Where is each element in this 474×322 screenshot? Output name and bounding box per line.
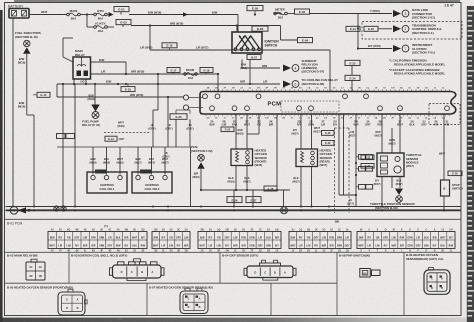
connector box pair E-32 [359, 167, 366, 172]
PCM U1 [200, 92, 456, 115]
connector B-08 drawing [360, 269, 371, 278]
arrow transmission control module [393, 25, 401, 32]
wire drop x190 [189, 119, 191, 144]
wire HO2S front grounds [235, 166, 237, 191]
wire to fuse METER [274, 13, 281, 15]
node fuel injector [24, 40, 30, 46]
wire california pair A [338, 114, 340, 195]
connector box pair E-36 [359, 185, 366, 190]
wire from arrow down [200, 169, 202, 190]
table verticals [68, 252, 70, 283]
wire ground collector y190 [201, 189, 290, 191]
wire TPS bottoms [381, 177, 383, 207]
wire branch down to fuse ROOM [86, 15, 88, 28]
connector box E-26 [227, 197, 242, 203]
wire drop x234 with box [233, 190, 235, 207]
wire fuse to connector [287, 13, 294, 15]
connector B-09 drawing [424, 268, 450, 295]
arrow cooling fan relay [283, 81, 291, 88]
wire battery ground run [12, 18, 14, 207]
wire relay feed from fuse side [62, 38, 64, 57]
connector box E-12 [105, 136, 117, 141]
dashed option box TCM [362, 22, 462, 40]
connector box B-06 above switch [252, 26, 268, 31]
wire coil collector [57, 146, 190, 148]
wire ground drop x75 [74, 84, 76, 207]
arrow fuel pump relay [91, 105, 100, 112]
connector B-03 drawing [110, 259, 165, 281]
dashed interconnect [104, 132, 150, 134]
connector B-02 drawing [31, 259, 37, 262]
wire coil feed [119, 147, 121, 175]
heated oxygen sensor front [231, 149, 253, 166]
wire fuse row to PCM pin [217, 74, 219, 92]
wire fuse MAIN to junction [80, 14, 93, 16]
connector box E-19 below bus [121, 87, 135, 92]
connector boxes cluster E-13 E-14 [57, 134, 66, 139]
wire coil feed [151, 147, 153, 175]
wire switch to cooling fan row [249, 60, 251, 85]
wire relay out lower [91, 73, 219, 75]
connector B-01 grid A1 [48, 232, 147, 249]
throttle sensor module [377, 153, 404, 177]
wire to connector E-01 [107, 14, 112, 16]
arrow throttle position sensor [395, 189, 403, 196]
wire drop x153 [152, 110, 154, 144]
ground G3 [54, 206, 59, 211]
connector B-01 grid A2 [152, 232, 190, 249]
connector box E-27 [246, 197, 261, 203]
table line row1 [5, 251, 461, 253]
connector B-04 drawing [244, 260, 296, 280]
connector box E-28 [264, 186, 277, 191]
wire pcm ground x277 [276, 114, 278, 190]
wire junction to switch [236, 26, 238, 33]
bus end arrow [18, 207, 26, 213]
section divider [5, 218, 461, 220]
connector box E-15 [37, 92, 50, 97]
bus wire y84 [57, 83, 237, 85]
connector box E-29b [322, 141, 335, 146]
wire TPS feeds [381, 114, 383, 153]
stop switch [441, 180, 450, 196]
wire branch down [280, 26, 282, 41]
dark tab coil labels [95, 170, 106, 174]
connector box E-34 [361, 164, 374, 169]
connector box E-16 on y50 [162, 43, 177, 48]
ignition coil NO.1 [87, 172, 127, 193]
wire coil feed [92, 147, 94, 175]
wire to connector E-03 [107, 26, 114, 28]
arrow sunroof relay [283, 65, 291, 72]
wire y50 to PCM [329, 50, 331, 92]
connector box E-02 [295, 9, 310, 14]
wire battery to fuse MAIN [29, 14, 67, 16]
connector box E-22 [364, 26, 378, 31]
connector box E-35 [448, 171, 462, 176]
wire fuel pump branch [94, 84, 96, 105]
wire solenoid main [355, 114, 357, 207]
PCM pin node B [183, 105, 188, 110]
wire drop x253 with box [252, 190, 254, 207]
connector box E-18 [200, 68, 213, 73]
wire E-03 feed [131, 25, 281, 27]
connector box E-05 [247, 6, 263, 11]
wire y50 run [149, 26, 151, 51]
fuse ROOM 15A [184, 73, 187, 76]
wire switch to sunroof row [241, 60, 243, 69]
wire ground drop x63 [62, 84, 64, 207]
wire relay right leg [85, 79, 87, 84]
fuse BTN 60A [94, 13, 97, 16]
node fuel pump relay [92, 112, 99, 119]
wire ground bus lower [6, 209, 461, 211]
ground G1 [281, 207, 288, 214]
wire cooling fan feed [237, 83, 280, 85]
wire sunroof relay feed [242, 67, 280, 69]
arrow instrument cluster [393, 45, 401, 52]
connector box E-04 [298, 38, 313, 43]
wire stop switch to bus [443, 196, 445, 210]
connector box E-03 [116, 20, 131, 25]
connector B-05 drawing [58, 289, 87, 315]
wire down to ignition switch [237, 15, 239, 33]
PCM pins top row [203, 94, 208, 99]
dashed pin group box inside PCM [281, 101, 339, 112]
heated oxygen sensor rear [296, 149, 318, 167]
wire stop switch feed [443, 114, 445, 180]
PCM pin node A [183, 95, 188, 100]
connector box pair E-31 [359, 155, 366, 160]
wire coil feed [106, 147, 108, 175]
wire E-01 feed to ignition switch [129, 14, 238, 16]
connector box E-29a [322, 131, 335, 136]
wire drop to TCM row [357, 14, 359, 49]
ignition coil NO.2 [132, 172, 172, 193]
arrow data link connector [393, 10, 401, 17]
wire pcm feed y97 [57, 96, 183, 98]
wire HO2S front feeds [235, 114, 237, 149]
wire E-23 to E-24 [351, 66, 353, 76]
pin ticks below PCM [206, 114, 450, 116]
connector box E-25 [221, 127, 234, 132]
connector box B-07 below switch [247, 55, 261, 60]
arrow up to PCM [197, 162, 205, 169]
table line row2 [5, 282, 337, 284]
wire to TCM [378, 28, 392, 30]
PCM pins bottom row [210, 106, 215, 111]
wire to data link branch [310, 13, 359, 15]
node PCM callout [198, 155, 205, 162]
wire E-24 to PCM [351, 81, 353, 92]
pin numbers above PCM [206, 89, 450, 91]
connector box E-33 [361, 155, 374, 160]
connector box E-24 [345, 75, 360, 80]
wire drop x168 [167, 97, 169, 144]
fuse METER 30A [274, 12, 277, 15]
wire bend 2G [258, 114, 260, 134]
connector B-01 grid B [198, 232, 281, 249]
connector box E-21 [346, 26, 360, 31]
wire relay out upper [91, 61, 127, 63]
dashed california group line B [348, 128, 350, 213]
wire coil feed [137, 147, 139, 175]
connector box E-23 [345, 60, 360, 65]
wire to data link connector [358, 13, 392, 15]
wire HO2S rear feeds [300, 114, 302, 149]
connector box E-17 on relay wire [167, 68, 180, 73]
wire ground bus upper [6, 206, 461, 208]
arrow to fuel injectors [23, 47, 31, 54]
wire to instrument cluster [358, 48, 392, 50]
connector B-01 grid C [289, 232, 351, 249]
wire california pair B [343, 114, 345, 195]
wire injector feed down [26, 54, 28, 115]
wire coil feed [164, 147, 166, 175]
dashed option box on PCM right [429, 104, 460, 125]
fuse MAIN 80A [67, 13, 70, 16]
wire HO2S rear grounds [300, 167, 302, 207]
connector B-01 grid D [357, 232, 455, 249]
wire drop x176 [175, 119, 177, 144]
connector box E-20 [170, 114, 187, 120]
dashed california group line A [334, 128, 336, 213]
ignition switch SW1 [232, 32, 262, 53]
node throttle position sensor [396, 196, 403, 203]
fuse ROOM 40A [94, 26, 97, 29]
wire fuse row second [157, 74, 159, 110]
wire relay left leg [56, 84, 58, 97]
wire injector to bus [27, 114, 34, 116]
connector B-07 drawing [180, 288, 208, 313]
ground G2 [10, 207, 18, 215]
connector box E-01 [114, 7, 129, 12]
wire ground x283 [283, 190, 285, 207]
wire ground drop x190 [190, 147, 192, 207]
ground G4 [61, 206, 66, 211]
